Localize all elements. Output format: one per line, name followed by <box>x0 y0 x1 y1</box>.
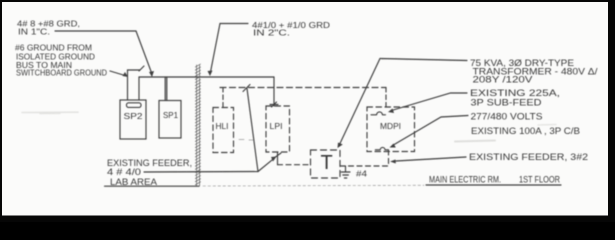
svg-text:IN 2"C.: IN 2"C. <box>253 29 290 38</box>
panel HL1 (dashed) <box>213 108 234 153</box>
svg-text:EXISTING FEEDER, 3#2: EXISTING FEEDER, 3#2 <box>469 152 588 162</box>
svg-text:277/480 VOLTS: 277/480 VOLTS <box>471 112 543 122</box>
breaker tick and stub wire at LP1 bottom <box>274 152 281 165</box>
svg-text:208Y /120V: 208Y /120V <box>473 75 533 85</box>
svg-text:#6 GROUND FROM: #6 GROUND FROM <box>15 44 92 53</box>
wall with hatching <box>195 64 200 186</box>
svg-text:T: T <box>321 152 333 174</box>
faint continuation dashes between HL1 and LP1 <box>239 139 254 142</box>
leader wire from 3#2 note to MDP1 feeder <box>396 157 466 161</box>
leader wire from 4#8 note to new feeder bus <box>55 31 152 74</box>
dashed drop wire to panel HL1 <box>222 88 224 108</box>
note: 4#1/0 + #1/0 GRD in 2"C <box>252 20 330 38</box>
breaker at MDP1 top <box>371 112 386 115</box>
dashed wire from T to MDP1 bottom breaker <box>340 151 389 167</box>
new feeder bus wire <box>139 76 274 78</box>
lab area boundary line <box>105 185 200 187</box>
faint boundary dotted line <box>203 184 424 187</box>
svg-text:LPI: LPI <box>270 122 283 131</box>
note: 75 KVA transformer <box>470 58 598 85</box>
existing feeder dashed bus wire <box>220 87 386 89</box>
panel SP2 <box>120 100 146 139</box>
transformer T (dashed box) <box>311 150 341 178</box>
svg-text:1ST FLOOR: 1ST FLOOR <box>519 175 560 185</box>
svg-text:EXISTING 100A , 3P C/B: EXISTING 100A , 3P C/B <box>471 126 580 136</box>
wire drop to panel SP1 <box>165 77 167 101</box>
#6 ground wire from SP2 to switchboard ground <box>128 70 141 100</box>
wire drop to panel LP1 <box>273 77 275 106</box>
wire drop to panel SP2 <box>138 77 140 100</box>
leader wire from 277/480 note to MDP1 bottom breaker <box>393 116 469 146</box>
dashed wire from LP1 to transformer T <box>278 164 311 166</box>
breaker tick at LP1 top <box>270 102 278 107</box>
svg-text:MAIN ELECTRIC RM.: MAIN ELECTRIC RM. <box>429 175 501 185</box>
svg-text:4 # 4/0: 4 # 4/0 <box>107 167 141 177</box>
ground symbol with #4 conductor <box>345 166 347 172</box>
panel LP1 (dashed) <box>266 106 290 152</box>
svg-text:SWITCHBOARD GROUND: SWITCHBOARD GROUND <box>16 69 107 78</box>
svg-text:SP1: SP1 <box>163 110 178 120</box>
panel SP1 <box>159 101 181 139</box>
note: existing 225A 3P sub-feed <box>470 88 560 108</box>
svg-text:ISOLATED GROUND: ISOLATED GROUND <box>16 52 95 61</box>
faint scan smudges <box>22 112 78 113</box>
leader wires from existing feeder 4#4/0 note <box>144 89 258 173</box>
leader wire from ground note <box>110 71 125 76</box>
leader wire from 225A note to MDP1 top breaker <box>392 93 468 111</box>
note: #6 ground from isolated ground bus to main switchboard ground <box>15 44 107 78</box>
leader wire from 75KVA note to T <box>340 59 468 145</box>
dashed drop wire to panel MDP1 <box>385 88 387 109</box>
tick on ground wire end <box>139 66 144 71</box>
svg-text:#4: #4 <box>356 170 368 179</box>
svg-text:IN 1"C.: IN 1"C. <box>18 28 50 37</box>
svg-text:3P SUB-FEED: 3P SUB-FEED <box>471 98 543 108</box>
slash arrow on dashed bus <box>243 85 250 92</box>
breaker at MDP1 bottom <box>375 147 388 149</box>
svg-text:LAB AREA: LAB AREA <box>110 177 158 187</box>
svg-text:SP2: SP2 <box>124 111 143 121</box>
panel MDP1 (dashed) <box>367 107 415 152</box>
svg-text:EXISTING 225A,: EXISTING 225A, <box>470 88 560 98</box>
electric room boundary line <box>426 184 561 186</box>
note: existing feeder 4#4/0 <box>107 158 192 177</box>
leader wire from 4#1/0 note to bus <box>211 24 249 73</box>
svg-text:MDPI: MDPI <box>380 122 401 131</box>
note: 4#8 + #8 GRD in 1"C <box>17 19 80 37</box>
svg-text:HLI: HLI <box>216 122 229 131</box>
